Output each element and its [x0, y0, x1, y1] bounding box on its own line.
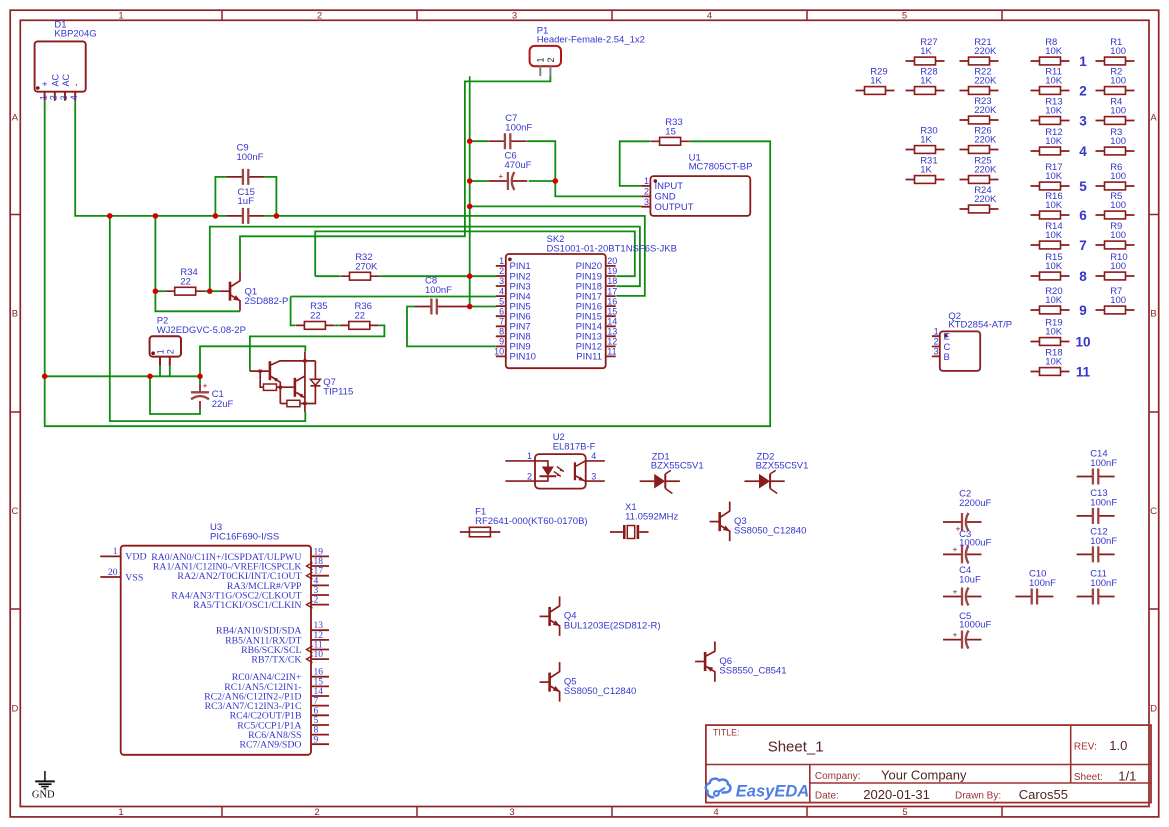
svg-text:+: +	[203, 381, 208, 391]
svg-text:16: 16	[607, 296, 617, 306]
resistor R30	[906, 125, 945, 153]
svg-text:4: 4	[1079, 144, 1087, 159]
svg-text:2: 2	[1079, 83, 1087, 98]
svg-text:Date:: Date:	[815, 791, 839, 802]
resistor R1	[1096, 37, 1135, 65]
svg-text:3: 3	[509, 807, 514, 818]
svg-text:17: 17	[314, 567, 324, 577]
resistor R15	[1031, 252, 1070, 280]
resistor R24	[960, 185, 999, 213]
svg-text:WJ2EDGVC-5.08-2P: WJ2EDGVC-5.08-2P	[157, 325, 246, 336]
svg-text:3: 3	[591, 471, 596, 481]
svg-text:AC: AC	[51, 73, 61, 86]
svg-text:1K: 1K	[920, 46, 932, 57]
svg-text:Header-Female-2.54_1x2: Header-Female-2.54_1x2	[537, 35, 645, 46]
svg-text:10K: 10K	[1045, 357, 1063, 368]
svg-text:100nF: 100nF	[425, 285, 452, 296]
svg-text:10K: 10K	[1045, 76, 1063, 87]
svg-text:2: 2	[317, 11, 322, 22]
svg-text:1K: 1K	[920, 135, 932, 146]
svg-text:22: 22	[310, 311, 321, 322]
svg-text:10K: 10K	[1045, 295, 1063, 306]
svg-text:15: 15	[607, 306, 617, 316]
svg-text:SS8050_C12840: SS8050_C12840	[734, 526, 806, 537]
svg-text:PIC16F690-I/SS: PIC16F690-I/SS	[210, 532, 279, 543]
frame row letters right	[1150, 112, 1157, 714]
svg-text:100: 100	[1110, 136, 1126, 147]
resistor R14	[1031, 221, 1070, 249]
capacitor C6 470uF polarized	[489, 150, 532, 190]
resistor R31	[906, 155, 945, 183]
resistor R10	[1096, 252, 1135, 280]
resistor R9	[1096, 221, 1135, 249]
wire C6 left	[470, 180, 489, 182]
resistor R13	[1031, 96, 1070, 124]
transistor Q4 BUL1203E(2SD812-R)	[540, 596, 661, 636]
svg-text:10: 10	[494, 347, 504, 357]
svg-text:RB7/TX/CK: RB7/TX/CK	[251, 655, 301, 666]
svg-text:1K: 1K	[920, 165, 932, 176]
wire R34 left	[155, 290, 165, 292]
svg-text:10K: 10K	[1045, 327, 1063, 338]
net number labels 1-11	[1075, 54, 1090, 380]
svg-text:2: 2	[546, 57, 556, 62]
svg-text:1: 1	[527, 451, 532, 461]
wire C9 right loop	[265, 177, 277, 216]
svg-text:7: 7	[1079, 238, 1087, 253]
svg-text:15: 15	[665, 127, 676, 138]
svg-text:RF2641-000(KT60-0170B): RF2641-000(KT60-0170B)	[475, 516, 587, 527]
svg-text:22: 22	[180, 276, 191, 287]
resistor R28	[906, 66, 945, 94]
svg-text:11: 11	[1076, 364, 1091, 379]
resistor R26	[960, 125, 999, 153]
capacitor C1 22uF polarized vertical	[191, 381, 234, 411]
capacitor C4 10uF	[943, 565, 982, 605]
resistor R5	[1096, 191, 1135, 219]
resistor R6	[1096, 162, 1135, 190]
svg-text:11: 11	[607, 347, 616, 357]
svg-text:10K: 10K	[1045, 230, 1063, 241]
svg-text:+: +	[953, 586, 958, 596]
connector P2 WJ2EDGVC-5.08-2P	[150, 316, 246, 366]
transistor Q7 TIP115 darlington	[250, 352, 353, 412]
svg-text:EasyEDA: EasyEDA	[736, 783, 809, 801]
svg-text:GND: GND	[32, 790, 55, 801]
svg-text:1: 1	[536, 57, 546, 62]
svg-text:100: 100	[1110, 46, 1126, 57]
resistor R33	[651, 117, 690, 145]
svg-text:SS8550_C8541: SS8550_C8541	[719, 665, 786, 676]
zener diode ZD2 BZX55C5V1	[745, 452, 809, 494]
svg-text:10K: 10K	[1045, 136, 1063, 147]
svg-text:9: 9	[499, 337, 504, 347]
wire SK2 PIN5	[470, 306, 496, 308]
svg-text:VDD: VDD	[125, 552, 146, 563]
microcontroller U3 PIC16F690-I/SS	[100, 522, 329, 755]
svg-text:5: 5	[1079, 179, 1087, 194]
transistor Q3 SS8050_C12840	[710, 502, 807, 542]
svg-text:+: +	[40, 81, 50, 86]
wire P1.2 to Q1 collector	[240, 76, 550, 272]
svg-text:100nF: 100nF	[1090, 458, 1117, 469]
svg-text:1000uF: 1000uF	[959, 620, 991, 631]
svg-text:10K: 10K	[1045, 171, 1063, 182]
wire R35-R36 link	[335, 324, 340, 326]
svg-text:220K: 220K	[974, 135, 997, 146]
svg-text:14: 14	[607, 316, 617, 326]
wire P2 line	[45, 375, 200, 377]
svg-text:22: 22	[355, 311, 366, 322]
wire Q1 emitter return	[155, 216, 240, 311]
svg-text:8: 8	[314, 726, 319, 736]
svg-text:19: 19	[607, 266, 617, 276]
svg-text:4: 4	[591, 451, 596, 461]
svg-text:8: 8	[499, 327, 504, 337]
capacitor C15 1uF	[227, 187, 265, 224]
capacitor C11 100nF	[1077, 569, 1118, 605]
capacitor C10 100nF	[1015, 569, 1056, 605]
svg-text:Drawn By:: Drawn By:	[955, 791, 1001, 802]
wire C1 bottom loop	[150, 376, 200, 414]
svg-text:22uF: 22uF	[212, 399, 234, 410]
svg-text:10K: 10K	[1045, 200, 1063, 211]
wire main to Q7 emitter bottom	[110, 216, 305, 421]
svg-text:470uF: 470uF	[505, 160, 532, 171]
svg-text:10: 10	[1075, 334, 1090, 349]
svg-text:100: 100	[1110, 261, 1126, 272]
svg-text:12: 12	[314, 631, 324, 641]
svg-text:1K: 1K	[870, 76, 882, 87]
svg-text:3: 3	[644, 197, 649, 207]
wire R32 left lead	[315, 275, 340, 277]
svg-text:5: 5	[902, 807, 907, 818]
svg-text:1: 1	[1079, 54, 1087, 69]
capacitor C13 100nF	[1077, 488, 1118, 524]
transistor array Q2 KTD2854-AT/P	[932, 311, 1012, 371]
svg-text:3: 3	[499, 276, 504, 286]
svg-text:5: 5	[314, 716, 319, 726]
svg-text:14: 14	[314, 687, 324, 697]
svg-text:D: D	[11, 703, 18, 714]
resistor R17	[1031, 162, 1070, 190]
svg-text:10K: 10K	[1045, 261, 1063, 272]
wire SK2 PIN4 line	[291, 296, 496, 298]
transistor Q1 2SD882-P	[220, 271, 288, 311]
svg-text:2: 2	[934, 337, 939, 347]
svg-text:BUL1203E(2SD812-R): BUL1203E(2SD812-R)	[564, 620, 661, 631]
svg-text:REV:: REV:	[1074, 742, 1097, 753]
svg-text:10K: 10K	[1045, 46, 1063, 57]
svg-text:KBP204G: KBP204G	[54, 29, 96, 40]
svg-text:11.0592MHz: 11.0592MHz	[625, 511, 678, 522]
svg-text:100: 100	[1110, 295, 1126, 306]
svg-text:100: 100	[1110, 76, 1126, 87]
svg-text:2: 2	[644, 187, 649, 197]
svg-text:B: B	[944, 352, 950, 363]
svg-text:3: 3	[934, 347, 939, 357]
svg-text:2: 2	[314, 596, 319, 606]
svg-text:3: 3	[59, 95, 69, 100]
svg-text:INPUT: INPUT	[655, 181, 684, 192]
svg-text:100nF: 100nF	[505, 122, 532, 133]
svg-text:MC7805CT-BP: MC7805CT-BP	[689, 162, 753, 173]
svg-text:4: 4	[314, 576, 319, 586]
resistor R8	[1031, 37, 1070, 65]
wire C7 left	[470, 140, 489, 142]
transistor Q6 SS8550_C8541	[695, 642, 786, 682]
svg-text:1: 1	[38, 95, 48, 100]
svg-text:4: 4	[707, 11, 712, 22]
svg-text:2: 2	[499, 266, 504, 276]
EasyEDA logo	[706, 779, 809, 801]
svg-text:RC7/AN9/SDO: RC7/AN9/SDO	[239, 740, 301, 751]
wire C1 top	[199, 376, 201, 384]
svg-text:13: 13	[314, 621, 324, 631]
svg-text:1/1: 1/1	[1118, 769, 1136, 784]
resistor R35	[295, 301, 334, 329]
svg-text:D: D	[1150, 703, 1157, 714]
resistor R32	[341, 252, 380, 280]
svg-text:1000uF: 1000uF	[959, 538, 991, 549]
wire Q7 collector feed	[200, 346, 305, 376]
svg-text:18: 18	[314, 557, 324, 567]
svg-text:100nF: 100nF	[1090, 536, 1117, 547]
resistor R22	[960, 66, 999, 94]
svg-text:TITLE:: TITLE:	[713, 728, 739, 738]
frame column numbers bottom	[118, 807, 907, 818]
svg-text:7: 7	[499, 316, 504, 326]
capacitor C3 1000uF	[943, 529, 992, 563]
title block texts	[713, 728, 1136, 802]
wire P2 pin stubs	[160, 366, 170, 376]
wire C6 to U1 GND	[555, 181, 641, 196]
svg-text:1: 1	[934, 326, 939, 336]
svg-text:4: 4	[499, 286, 504, 296]
svg-text:KTD2854-AT/P: KTD2854-AT/P	[948, 320, 1012, 331]
frame column numbers top	[118, 11, 907, 22]
svg-text:20: 20	[607, 256, 617, 266]
svg-text:Sheet_1: Sheet_1	[768, 739, 824, 756]
svg-text:220K: 220K	[974, 194, 997, 205]
resistor R36	[340, 301, 379, 329]
svg-text:1uF: 1uF	[238, 196, 255, 207]
svg-text:PIN11: PIN11	[576, 352, 602, 363]
wire C6 right	[529, 180, 556, 182]
wire +5V vertical	[469, 76, 471, 306]
wire C9 left loop	[215, 177, 226, 216]
svg-text:13: 13	[607, 327, 617, 337]
resistor R2	[1096, 66, 1135, 94]
svg-text:RA5/T1CKI/OSC1/CLKIN: RA5/T1CKI/OSC1/CLKIN	[193, 600, 301, 611]
svg-text:100nF: 100nF	[1029, 578, 1056, 589]
transistor Q5 SS8050_C12840	[540, 662, 637, 702]
svg-text:SS8050_C12840: SS8050_C12840	[564, 686, 636, 697]
svg-text:B: B	[12, 308, 18, 319]
svg-text:+: +	[953, 629, 958, 639]
svg-text:7: 7	[314, 697, 319, 707]
svg-text:1: 1	[499, 256, 504, 266]
capacitor C14 100nF	[1077, 449, 1118, 485]
svg-text:2: 2	[314, 807, 319, 818]
svg-text:2200uF: 2200uF	[959, 498, 991, 509]
svg-text:15: 15	[314, 677, 324, 687]
svg-text:C: C	[11, 506, 18, 517]
svg-text:EL817B-F: EL817B-F	[553, 441, 596, 452]
svg-text:+: +	[498, 171, 503, 181]
capacitor C5 1000uF	[943, 611, 992, 649]
svg-text:Your Company: Your Company	[881, 767, 967, 782]
resistor R7	[1096, 286, 1135, 314]
svg-text:1: 1	[118, 807, 123, 818]
resistor R3	[1096, 127, 1135, 155]
svg-text:6: 6	[1079, 208, 1087, 223]
resistor R20	[1031, 286, 1070, 314]
optocoupler U2 EL817B-F	[505, 432, 604, 488]
capacitor C12 100nF	[1077, 526, 1118, 562]
wire C7 right down	[527, 141, 555, 181]
wire U1 OUTPUT	[470, 205, 642, 207]
svg-text:1K: 1K	[920, 76, 932, 87]
svg-text:Caros55: Caros55	[1019, 787, 1068, 802]
wire C8 to SK2 PIN9	[407, 307, 496, 347]
svg-text:220K: 220K	[974, 105, 997, 116]
svg-text:3: 3	[512, 11, 517, 22]
resistor R19	[1031, 317, 1070, 345]
svg-text:100nF: 100nF	[1090, 578, 1117, 589]
svg-text:PIN10: PIN10	[510, 352, 536, 363]
svg-text:2: 2	[527, 471, 532, 481]
svg-text:1: 1	[118, 11, 123, 22]
svg-text:2020-01-31: 2020-01-31	[863, 787, 930, 802]
svg-text:220K: 220K	[974, 46, 997, 57]
svg-text:8: 8	[1079, 269, 1087, 284]
svg-text:10K: 10K	[1045, 106, 1063, 117]
resistor R18	[1031, 347, 1070, 375]
resistor R12	[1031, 127, 1070, 155]
svg-text:100nF: 100nF	[237, 152, 264, 163]
bridge rectifier D1 KBP204G	[35, 20, 97, 101]
resistor R25	[960, 155, 999, 183]
svg-text:6: 6	[499, 306, 504, 316]
svg-text:100: 100	[1110, 230, 1126, 241]
svg-text:12: 12	[607, 337, 617, 347]
svg-text:+: +	[953, 544, 958, 554]
svg-text:5: 5	[499, 296, 504, 306]
frame row letters left	[11, 112, 18, 714]
capacitor C9 100nF	[227, 143, 265, 185]
wire Q1 base to PIN18	[210, 227, 640, 292]
capacitor C7 100nF	[489, 113, 533, 149]
svg-text:DS1001-01-20BT1NSF6S-JKB: DS1001-01-20BT1NSF6S-JKB	[547, 244, 677, 255]
wire D1.1 to R33 bottom loop	[45, 101, 771, 427]
svg-text:BZX55C5V1: BZX55C5V1	[756, 461, 809, 472]
wire R35 drop	[291, 297, 296, 326]
socket SK2 DS1001-01-20BT1NSF6S-JKB	[494, 234, 677, 368]
wire main D1.4 line left	[75, 101, 226, 216]
svg-text:10uF: 10uF	[959, 574, 981, 585]
svg-text:1: 1	[155, 349, 165, 354]
svg-text:3: 3	[1079, 113, 1087, 128]
wire main line right to PIN17	[265, 216, 645, 296]
svg-text:BZX55C5V1: BZX55C5V1	[651, 461, 704, 472]
svg-text:6: 6	[314, 706, 319, 716]
resistor R4	[1096, 96, 1135, 124]
svg-text:C: C	[1150, 506, 1157, 517]
ground symbol GND	[32, 771, 55, 801]
svg-text:4: 4	[713, 807, 718, 818]
svg-text:2: 2	[49, 95, 59, 100]
resistor R11	[1031, 66, 1070, 94]
svg-text:3: 3	[314, 586, 319, 596]
svg-text:17: 17	[607, 286, 617, 296]
title block frame	[706, 725, 1151, 803]
svg-text:OUTPUT: OUTPUT	[655, 202, 694, 213]
svg-text:220K: 220K	[974, 165, 997, 176]
resistor R29	[856, 66, 895, 94]
svg-text:Company:: Company:	[815, 771, 861, 782]
zener diode ZD1 BZX55C5V1	[640, 452, 704, 494]
svg-text:100: 100	[1110, 171, 1126, 182]
svg-text:11: 11	[314, 641, 323, 651]
svg-text:2SD882-P: 2SD882-P	[245, 296, 289, 307]
resistor R16	[1031, 191, 1070, 219]
svg-text:5: 5	[902, 11, 907, 22]
svg-text:1.0: 1.0	[1109, 738, 1127, 753]
svg-text:100nF: 100nF	[1090, 497, 1117, 508]
wire R32 left to PIN19	[315, 231, 635, 276]
voltage regulator U1 MC7805CT-BP	[641, 153, 752, 216]
svg-text:1: 1	[113, 547, 118, 557]
crystal X1 11.0592MHz	[610, 502, 679, 539]
svg-text:10: 10	[314, 650, 324, 660]
svg-text:18: 18	[607, 276, 617, 286]
svg-text:1: 1	[644, 176, 649, 186]
resistor R27	[906, 37, 945, 65]
junction dots	[42, 138, 558, 379]
svg-text:20: 20	[108, 568, 118, 578]
svg-text:-: -	[71, 84, 81, 87]
resistor R34	[166, 267, 205, 295]
svg-text:Sheet:: Sheet:	[1074, 772, 1103, 783]
wire R36 to Q7 base	[250, 325, 385, 371]
svg-text:2: 2	[166, 349, 176, 354]
svg-text:VSS: VSS	[125, 572, 143, 583]
svg-text:A: A	[1150, 112, 1157, 123]
connector P1 Header-Female-2.54_1x2	[530, 25, 645, 76]
svg-text:19: 19	[314, 547, 324, 557]
svg-text:100: 100	[1110, 106, 1126, 117]
svg-text:TIP115: TIP115	[323, 386, 353, 397]
resistor R21	[960, 37, 999, 65]
wire R33 to U1 INPUT	[620, 141, 651, 186]
svg-text:9: 9	[314, 735, 319, 745]
svg-text:270K: 270K	[355, 261, 378, 272]
svg-text:9: 9	[1079, 303, 1087, 318]
capacitor C2 2200uF	[943, 489, 992, 534]
svg-text:A: A	[12, 112, 19, 123]
wire R32 right to SK2 PIN2	[380, 275, 496, 277]
resistor R23	[960, 96, 999, 124]
svg-text:B: B	[1150, 308, 1156, 319]
capacitor C8 100nF	[415, 276, 470, 315]
svg-text:16: 16	[314, 668, 324, 678]
wire R34 to Q1 base	[205, 290, 220, 292]
svg-text:100: 100	[1110, 200, 1126, 211]
fuse F1 RF2641-000(KT60-0170B)	[460, 507, 588, 537]
svg-text:4: 4	[69, 95, 79, 100]
svg-text:AC: AC	[61, 73, 71, 86]
